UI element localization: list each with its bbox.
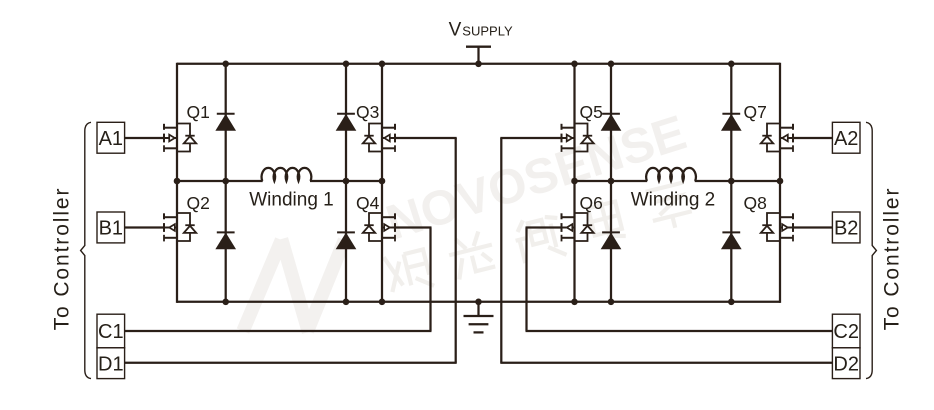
- wire B2 to Q8 gate: [793, 226, 832, 228]
- svg-text:Q8: Q8: [744, 193, 767, 213]
- svg-text:Q7: Q7: [744, 102, 767, 122]
- svg-text:SUPPLY: SUPPLY: [462, 24, 513, 39]
- junction bottom rail / ground stub: [475, 299, 482, 306]
- svg-text:Q6: Q6: [580, 193, 603, 213]
- wire Q3/Q4 leg vertical x=382: [381, 64, 383, 302]
- wire A1 to Q1 gate: [125, 137, 164, 139]
- wire Q1/Q2 leg vertical x=177: [176, 63, 178, 303]
- svg-text:To Controller: To Controller: [51, 187, 74, 331]
- wire Q5 gate from riser: [500, 137, 561, 139]
- wire D1 box to riser: [125, 362, 457, 364]
- transistor Q4: [394, 213, 396, 219]
- connector box D1: [97, 348, 125, 379]
- svg-text:Q5: Q5: [580, 102, 603, 122]
- junction winding 1 node / Q3/Q4 leg: [379, 178, 386, 185]
- svg-text:C1: C1: [98, 321, 124, 343]
- wire D7/D8 diode leg x=731.3: [730, 64, 732, 302]
- wire supply stub: [477, 47, 479, 64]
- junction bottom rail / D2 leg: [222, 299, 229, 306]
- diode D5 (upper, x=611): [602, 113, 620, 115]
- junction top rail / Q3 leg: [379, 61, 386, 68]
- diode D2 (lower left leg): [217, 231, 235, 233]
- diode D7 (upper, x=731.3): [722, 113, 740, 115]
- wire top rail: [177, 63, 780, 65]
- junction winding 2 node / D5/D6 leg: [608, 178, 615, 185]
- connector box B1: [97, 212, 125, 243]
- svg-text:Q2: Q2: [187, 193, 210, 213]
- wire B1 to Q2 gate: [125, 226, 164, 228]
- transistor Q3: [394, 124, 396, 130]
- transistor Q1: [163, 124, 165, 130]
- svg-text:A2: A2: [834, 128, 858, 150]
- svg-text:Q4: Q4: [356, 193, 380, 213]
- wire A2 to Q7 gate: [793, 137, 832, 139]
- connector box A2: [832, 122, 860, 153]
- svg-text:Q3: Q3: [356, 102, 379, 122]
- transistor Q6: [561, 213, 563, 219]
- wire Q6 gate from riser: [526, 226, 562, 228]
- wire riser C2 to Q6 gate x=526.5: [525, 228, 527, 332]
- wire Q5/Q6 leg vertical x=574.5: [573, 64, 575, 302]
- connector box C2: [832, 314, 860, 348]
- svg-text:C2: C2: [833, 321, 859, 343]
- brace right: [866, 122, 876, 378]
- junction bottom rail / Q4 leg: [379, 299, 386, 306]
- junction winding 1 node / D1/D2 leg: [222, 178, 229, 185]
- junction winding 1 node / Q1/Q2 leg: [174, 178, 181, 185]
- wire Q7/Q8 leg vertical x=780: [779, 63, 781, 303]
- svg-text:To Controller: To Controller: [880, 187, 903, 331]
- diode D8 (lower, x=731.3): [722, 231, 740, 233]
- connector box C1: [97, 314, 125, 348]
- junction top rail / D5 leg: [608, 61, 615, 68]
- svg-text:D2: D2: [833, 353, 859, 375]
- junction winding 1 node / D3/D4 leg: [343, 178, 350, 185]
- transistor Q5: [561, 124, 563, 130]
- inductor Winding 2: [646, 168, 696, 181]
- transistor Q7: [792, 124, 794, 130]
- watermark NOVOSENSE logo N: [243, 239, 345, 332]
- transistor Q2: [163, 213, 165, 219]
- junction winding 2 node / Q5/Q6 leg: [571, 178, 578, 185]
- svg-text:B1: B1: [99, 218, 123, 240]
- junction bottom rail / D8 leg: [728, 299, 735, 306]
- diode D3 (upper, x=346): [337, 113, 355, 115]
- svg-text:A1: A1: [99, 128, 123, 150]
- junction bottom rail / Q6 leg: [571, 299, 578, 306]
- connector box D2: [832, 348, 860, 379]
- wire riser C1 to Q4 gate x=430.5: [429, 228, 431, 332]
- junction bottom rail / D6 leg: [608, 299, 615, 306]
- transistor Q8: [792, 213, 794, 219]
- junction winding 2 node / Q7/Q8 leg: [777, 178, 784, 185]
- junction top rail / D1 leg: [222, 61, 229, 68]
- junction bottom rail / D4 leg: [343, 299, 350, 306]
- wire C2 box to riser: [526, 330, 833, 332]
- svg-text:B2: B2: [834, 218, 858, 240]
- wire D2 box to riser: [500, 362, 832, 364]
- wire Q3 gate to riser: [395, 137, 457, 139]
- svg-text:Q1: Q1: [187, 102, 210, 122]
- diode D6 (lower, x=611): [602, 231, 620, 233]
- svg-text:Winding 2: Winding 2: [631, 190, 716, 211]
- brace left: [81, 122, 91, 378]
- junction top rail / supply stub: [475, 61, 482, 68]
- junction top rail / Q5 leg: [571, 61, 578, 68]
- wire D5/D6 diode leg x=611: [610, 64, 612, 302]
- wire D1/D2 diode leg x=225.7: [225, 64, 227, 302]
- wire C1 box to riser: [125, 330, 432, 332]
- wire riser D1 to Q3 gate x=455.7: [455, 138, 457, 363]
- svg-text:Winding 1: Winding 1: [249, 190, 334, 211]
- diode D1 (upper left leg): [217, 113, 235, 115]
- watermark chinese characters: [383, 180, 694, 298]
- diode D4 (lower, x=346): [337, 231, 355, 233]
- wire bottom rail: [177, 301, 780, 303]
- wire mid rail right (winding 2 row): [575, 180, 648, 182]
- connector box B2: [832, 212, 860, 243]
- junction top rail / D7 leg: [728, 61, 735, 68]
- ground symbol: [477, 302, 479, 316]
- inductor Winding 1: [262, 168, 312, 181]
- junction winding 2 node / D7/D8 leg: [728, 178, 735, 185]
- supply bar symbol: [466, 46, 491, 48]
- wire riser D2 to Q5 gate x=501.3: [500, 138, 502, 363]
- connector box A1: [97, 122, 125, 153]
- wire mid rail left (winding 1 row): [177, 180, 263, 182]
- junction top rail / D3 leg: [343, 61, 350, 68]
- svg-text:D1: D1: [98, 353, 124, 375]
- wire D3/D4 diode leg x=346: [345, 64, 347, 302]
- wire Q4 gate to riser: [395, 226, 432, 228]
- svg-text:V: V: [449, 20, 462, 41]
